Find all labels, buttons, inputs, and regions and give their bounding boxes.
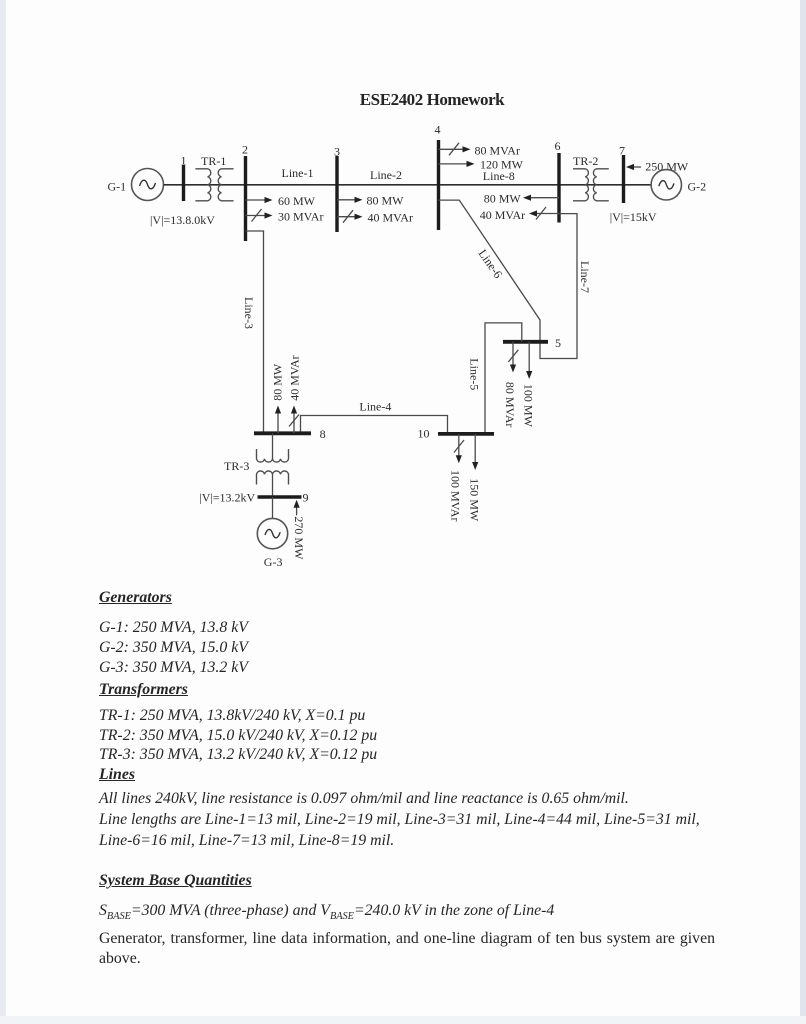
svg-text:2: 2 (242, 143, 248, 157)
load arrow 30 MVAr at bus 2 (slashed) (246, 209, 273, 222)
bus 10 (438, 432, 494, 436)
load arrow 150 MW at bus 10 (472, 434, 478, 470)
svg-text:150 MW: 150 MW (467, 478, 481, 522)
generator G-3 (257, 518, 287, 548)
svg-text:Line-8: Line-8 (483, 169, 515, 183)
svg-text:TR-3: TR-3 (224, 459, 249, 473)
svg-text:80 MVAr: 80 MVAr (503, 382, 517, 427)
svg-text:|V|=15kV: |V|=15kV (610, 210, 657, 224)
load arrow 80 MVAr at bus 5 (slashed) (508, 342, 518, 373)
page edge bottom (0, 1016, 806, 1024)
generation arrow 250 MW into bus 7 (626, 164, 641, 170)
svg-text:80 MW: 80 MW (367, 194, 405, 208)
svg-text:100 MW: 100 MW (522, 384, 536, 428)
svg-text:80 MVAr: 80 MVAr (475, 143, 520, 157)
load arrow 120 MW at bus 4 (439, 161, 475, 167)
wire Line-8 bus4..G-2 (439, 184, 652, 186)
bus 1 (182, 165, 185, 201)
svg-text:40 MVAr: 40 MVAr (480, 208, 525, 222)
transformer TR-1 (195, 169, 233, 201)
wire bus 8 to TR-3 (272, 433, 274, 459)
generator G-1 (132, 169, 164, 201)
wire main trunk bus1..bus4 (164, 184, 439, 186)
bus 5 (503, 340, 548, 344)
page edge right (800, 0, 806, 1024)
wire Line-7 from bus 6 to bus 5 (540, 214, 577, 359)
load arrow 40 MVAr at bus 3 (slashed) (337, 210, 363, 223)
svg-text:Line-2: Line-2 (370, 168, 402, 182)
svg-text:5: 5 (555, 336, 561, 350)
wire bus 9 to G-3 (272, 497, 274, 519)
svg-text:Line-6: Line-6 (476, 247, 506, 281)
svg-text:7: 7 (619, 143, 625, 157)
svg-text:Line-1: Line-1 (282, 166, 314, 180)
svg-text:10: 10 (418, 427, 430, 441)
svg-text:40 MVAr: 40 MVAr (368, 211, 413, 225)
load arrow 80 MVAr at bus 4 (slashed) (439, 143, 471, 156)
svg-text:250 MW: 250 MW (645, 160, 689, 174)
load arrow 80 MW at bus 8 (up) (275, 406, 281, 434)
svg-text:|V|=13.8.0kV: |V|=13.8.0kV (150, 213, 215, 227)
load arrow 40 MVAr at bus 8 (up, slashed) (289, 406, 299, 434)
svg-text:Line-5: Line-5 (467, 358, 481, 390)
generator G-2 (651, 170, 681, 200)
svg-text:1: 1 (181, 154, 187, 168)
bus 6 (557, 153, 560, 223)
svg-text:G-2: G-2 (688, 179, 707, 193)
text section (99, 589, 172, 607)
svg-text:30 MVAr: 30 MVAr (278, 209, 323, 223)
svg-text:80 MW: 80 MW (484, 192, 522, 206)
svg-text:3: 3 (334, 145, 340, 159)
svg-text:270 MW: 270 MW (292, 516, 306, 560)
bus 7 (622, 155, 625, 203)
title (57, 90, 806, 110)
svg-text:8: 8 (320, 427, 326, 441)
wire Line-3 from bus 2 to bus 8 (246, 231, 264, 433)
load arrow 40 MVAr at bus 6 (slashed, points left) (529, 207, 559, 220)
transformer TR-3 (257, 449, 289, 485)
svg-text:Line-4: Line-4 (359, 400, 391, 414)
svg-text:G-1: G-1 (108, 180, 127, 194)
svg-text:4: 4 (435, 123, 441, 137)
svg-text:6: 6 (555, 139, 561, 153)
load arrow 80 MW at bus 6 (points left) (523, 195, 559, 201)
bus 3 (335, 156, 338, 232)
load arrow 100 MW at bus 5 (526, 342, 532, 379)
wire Line-5 from bus 10 to bus 5 (485, 323, 522, 434)
svg-text:Line-3: Line-3 (242, 297, 256, 329)
svg-text:40 MVAr: 40 MVAr (288, 355, 302, 400)
bus 9 (258, 495, 302, 498)
svg-text:TR-2: TR-2 (573, 154, 598, 168)
svg-text:Line-7: Line-7 (578, 261, 592, 293)
wire TR-3 to bus 9 (272, 474, 274, 497)
load arrow 60 MW at bus 2 (246, 197, 273, 203)
wire Line-4 from bus 8 to bus 10 (301, 416, 448, 434)
generation arrow 270 MW into bus 9 (up) (294, 500, 300, 516)
svg-text:9: 9 (303, 491, 309, 505)
svg-text:G-3: G-3 (264, 555, 283, 569)
load arrow 80 MW at bus 3 (337, 197, 363, 203)
svg-text:TR-1: TR-1 (201, 154, 226, 168)
bus 4 (437, 140, 440, 230)
wire Line-6 from bus 4 to bus 5 (439, 200, 541, 342)
svg-text:100 MVAr: 100 MVAr (449, 470, 463, 521)
page edge left (0, 0, 6, 1024)
load arrow 100 MVAr at bus 10 (slashed) (454, 434, 464, 463)
svg-text:60 MW: 60 MW (278, 194, 316, 208)
svg-text:80 MW: 80 MW (271, 363, 285, 401)
bus 2 (244, 156, 247, 241)
svg-text:|V|=13.2kV: |V|=13.2kV (199, 490, 255, 504)
bus 8 (254, 431, 311, 435)
transformer TR-2 (573, 169, 609, 201)
